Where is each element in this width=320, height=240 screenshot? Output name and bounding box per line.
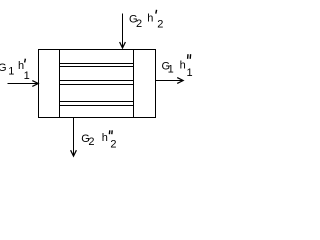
svg-text:2: 2 [110, 139, 116, 151]
arrowhead: left inlet [32, 81, 38, 87]
svg-text:G: G [0, 62, 7, 74]
arrowhead: right outlet [177, 78, 183, 84]
right tube-sheet divider [133, 50, 135, 118]
left tube-sheet divider [59, 50, 61, 118]
svg-text:1: 1 [8, 66, 14, 78]
svg-text:1: 1 [187, 67, 193, 79]
tube 2 lower line [60, 84, 134, 86]
tube 3 lower line [60, 105, 134, 107]
wire: left inlet arrow shaft [8, 83, 38, 85]
tube 2 upper line [60, 80, 134, 82]
arrowhead: top inlet [120, 42, 126, 48]
wire: bottom outlet arrow shaft [73, 118, 75, 156]
svg-text:h: h [180, 60, 186, 72]
tube 3 upper line [60, 101, 134, 103]
tube 1 upper line [60, 63, 134, 65]
svg-text:2: 2 [136, 18, 142, 30]
heat exchanger shell outline [39, 50, 156, 118]
svg-text:h: h [147, 13, 153, 25]
wire: right outlet arrow shaft [156, 80, 183, 82]
svg-text:2: 2 [157, 19, 163, 31]
tube 1 lower line [60, 66, 134, 68]
svg-text:1: 1 [24, 70, 30, 82]
svg-text:h: h [102, 132, 108, 144]
svg-text:1: 1 [168, 64, 174, 76]
arrowhead: bottom outlet [71, 150, 77, 156]
svg-text:2: 2 [88, 136, 94, 148]
wire: top inlet arrow shaft [122, 14, 124, 48]
